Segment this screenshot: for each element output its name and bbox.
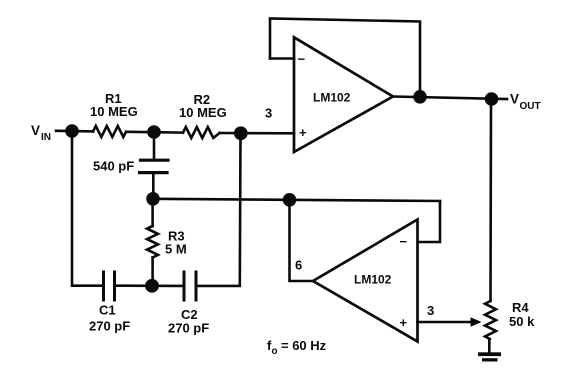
svg-text:o: o	[272, 346, 278, 357]
svg-text:V: V	[31, 123, 40, 138]
capacitor C2	[184, 272, 196, 300]
wire U1 output to VOUT	[393, 97, 507, 100]
svg-text:C1: C1	[99, 303, 116, 318]
capacitor C1	[104, 272, 115, 300]
wire C2 up to node B	[196, 133, 241, 286]
svg-text:LM102: LM102	[354, 273, 392, 287]
resistor R4 potentiometer	[485, 301, 496, 339]
svg-text:+: +	[400, 315, 408, 330]
wire R3 to node C	[151, 258, 154, 286]
svg-text:5 M: 5 M	[165, 242, 187, 257]
svg-text:3: 3	[427, 303, 434, 318]
svg-text:3: 3	[265, 106, 272, 121]
svg-text:R4: R4	[512, 300, 529, 315]
resistor R3	[147, 226, 158, 258]
wire VIN branch down to bottom rail	[72, 131, 104, 286]
wire R1 to R2	[126, 131, 183, 134]
wire U2 feedback corner to - input	[418, 201, 440, 242]
svg-text:270 pF: 270 pF	[89, 319, 130, 334]
node fo label	[267, 338, 327, 357]
ground	[478, 352, 501, 361]
wiper arrowhead	[471, 317, 482, 327]
capacitor 540pF lead from node A	[153, 132, 156, 160]
wire VOUT down to R4	[489, 99, 492, 301]
svg-text:10 MEG: 10 MEG	[90, 104, 138, 119]
svg-text:IN: IN	[41, 132, 51, 143]
svg-text:−: −	[400, 234, 408, 249]
svg-text:= 60 Hz: = 60 Hz	[281, 338, 327, 353]
resistor R2	[183, 127, 220, 138]
wire U2 output to node E	[290, 200, 314, 281]
node VIN label	[31, 123, 51, 143]
node VIN junction	[65, 124, 79, 138]
wire bootstrap line node D to U2 feedback	[153, 199, 440, 201]
op-amp U1 LM102	[294, 37, 393, 152]
resistor R1	[93, 126, 126, 137]
svg-text:270 pF: 270 pF	[168, 321, 209, 336]
wire 540pF to node D	[152, 173, 155, 199]
svg-text:−: −	[298, 52, 306, 67]
wire R4 to ground	[488, 339, 491, 352]
svg-text:+: +	[299, 125, 307, 140]
wire U2 + input to R4 wiper	[418, 321, 472, 324]
wire node C to C2	[152, 284, 184, 287]
svg-text:LM102: LM102	[313, 91, 351, 105]
svg-text:10 MEG: 10 MEG	[179, 105, 227, 120]
svg-text:50 k: 50 k	[509, 314, 535, 329]
wire U1 - input stub	[270, 57, 294, 60]
op-amp U2 LM102	[313, 220, 418, 342]
wire U1 feedback loop	[270, 19, 420, 97]
wire R3 lead from node D	[151, 199, 154, 226]
wire C1 to node C	[115, 284, 153, 287]
node C junction (C1/C2/R3)	[145, 279, 159, 293]
svg-text:6: 6	[295, 258, 302, 273]
wire VIN to R1	[56, 130, 93, 133]
capacitor 540 pF	[140, 160, 169, 172]
svg-text:V: V	[510, 92, 519, 107]
node U1 output junction	[413, 90, 427, 104]
node A junction (R1/R2/540pF)	[147, 125, 161, 139]
node E junction (U2 output tap)	[283, 193, 297, 207]
svg-text:OUT: OUT	[520, 101, 541, 112]
node VOUT label	[510, 92, 541, 113]
wire R2 to op-amp U1 + input	[220, 132, 295, 135]
node B junction (R2/C2/pin3)	[234, 126, 248, 140]
svg-text:540 pF: 540 pF	[93, 159, 134, 174]
node D junction (540pF/R3/bootstrap)	[146, 192, 160, 206]
node VOUT junction	[485, 92, 499, 106]
